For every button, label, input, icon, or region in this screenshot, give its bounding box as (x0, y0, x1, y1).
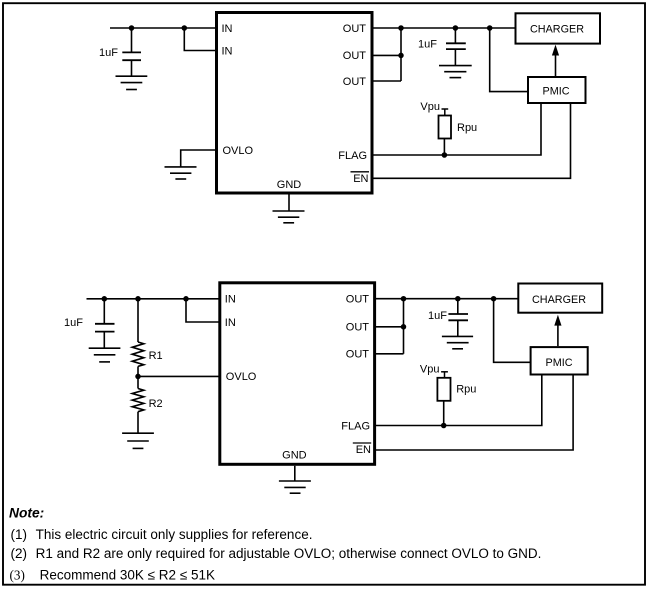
wire: EN to PMIC (bottom) (375, 376, 573, 451)
resistor R2 (zigzag) (132, 376, 144, 433)
svg-text:GND: GND (277, 179, 302, 191)
EN overline (U2) (353, 442, 371, 444)
svg-text:Note:: Note: (9, 506, 44, 521)
resistor Rpu (bottom) (437, 372, 450, 426)
svg-text:(3): (3) (10, 567, 25, 582)
svg-text:GND: GND (282, 450, 307, 462)
svg-text:1uF: 1uF (64, 317, 83, 329)
node: R1 junction (135, 296, 141, 302)
ground (OVLO, top circuit) (165, 167, 197, 179)
svg-text:Vpu: Vpu (420, 101, 440, 113)
svg-text:Rpu: Rpu (457, 122, 477, 134)
ground (under C3) (89, 348, 121, 362)
svg-text:OUT: OUT (346, 322, 370, 334)
capacitor C3 1uF (bottom-left) (95, 299, 115, 348)
box PMIC (bottom) (531, 347, 588, 374)
ground (U2 GND) (279, 481, 311, 493)
node: C1 junction (129, 25, 135, 31)
ground (under C1) (116, 76, 148, 89)
svg-text:1uF: 1uF (428, 310, 447, 322)
wire: branch to IN2 (184, 28, 216, 51)
wire: OUT3 stub (372, 80, 401, 82)
node: IN branch junction (bottom) (183, 296, 189, 302)
node: OUT bus mid junction (bottom) (401, 324, 407, 330)
svg-text:IN: IN (222, 45, 233, 57)
wire: PMIC to CHARGER arrow (555, 53, 557, 76)
node: OVLO divider junction (135, 374, 141, 380)
wire: GND pin to ground (bottom) (294, 466, 296, 481)
node: PMIC branch junction (bottom) (491, 296, 497, 302)
node: IN branch junction (182, 25, 188, 31)
wire: OVLO to ground (181, 150, 217, 167)
resistor R1 (zigzag) (132, 299, 144, 377)
wire: branch to IN2 (bottom) (186, 299, 220, 322)
wire: input to IN1 (bottom) (87, 298, 220, 300)
wire: OUT3 stub (bottom) (375, 353, 404, 355)
box PMIC (top) (528, 77, 586, 103)
wire: GND pin to ground (288, 194, 290, 211)
box CHARGER (top) (516, 13, 601, 43)
svg-text:OUT: OUT (346, 349, 370, 361)
svg-text:IN: IN (225, 294, 236, 306)
svg-text:(2): (2) (11, 546, 28, 561)
svg-text:IN: IN (225, 317, 236, 329)
wire: FLAG to PMIC (372, 104, 541, 155)
svg-text:R2: R2 (149, 398, 163, 410)
node: C2 junction (453, 25, 459, 31)
ground (U1 GND) (273, 211, 305, 223)
node: C3 junction (102, 296, 108, 302)
svg-text:OVLO: OVLO (223, 145, 254, 157)
svg-text:CHARGER: CHARGER (530, 24, 584, 36)
svg-text:Recommend 30K ≤ R2 ≤ 51K: Recommend 30K ≤ R2 ≤ 51K (40, 567, 215, 582)
node: OUT bus top junction (398, 25, 404, 31)
wire: EN to PMIC (372, 104, 571, 178)
ground (under C2) (439, 66, 472, 78)
svg-text:OUT: OUT (343, 23, 367, 35)
svg-text:OVLO: OVLO (226, 371, 257, 383)
svg-text:1uF: 1uF (99, 47, 118, 59)
node: OUT bus mid junction (398, 53, 404, 59)
capacitor C4 1uF (bottom-right) (448, 299, 468, 337)
capacitor C1 1uF (top-left) (122, 28, 141, 76)
wire: OVLO junction to OVLO pin (138, 375, 220, 377)
svg-text:1uF: 1uF (418, 38, 437, 50)
wire: rail branch down to PMIC (490, 28, 528, 92)
svg-text:OUT: OUT (343, 50, 367, 62)
wire: OUT2 stub (372, 54, 401, 56)
node: FLAG/Rpu junction (442, 152, 448, 158)
wire: FLAG to PMIC (bottom) (375, 376, 542, 426)
op-amp U1 (main IC box, top circuit) (217, 13, 373, 194)
svg-text:OUT: OUT (346, 294, 370, 306)
node: C4 junction (455, 296, 461, 302)
node: FLAG/Rpu junction (bottom) (441, 423, 447, 429)
EN overline (U1) (351, 171, 370, 173)
svg-text:Vpu: Vpu (420, 363, 440, 375)
svg-text:(1): (1) (11, 527, 28, 542)
wire: OUT1 rail to CHARGER (372, 27, 516, 29)
wire: input to IN1 (110, 27, 217, 29)
svg-text:R1 and R2 are only required fo: R1 and R2 are only required for adjustab… (36, 546, 542, 561)
svg-text:IN: IN (222, 23, 233, 35)
wire: PMIC to CHARGER arrow (bottom) (557, 324, 559, 346)
arrowhead (to CHARGER, bottom) (554, 315, 561, 326)
op-amp U2 (main IC box, bottom circuit) (220, 283, 375, 465)
wire: OUT bus vertical (bottom) (403, 298, 405, 354)
resistor Rpu (top) (439, 109, 452, 155)
wire: OUT1 rail to CHARGER (bottom) (375, 298, 519, 300)
svg-text:FLAG: FLAG (341, 420, 370, 432)
svg-text:EN: EN (356, 444, 371, 456)
ground (under R2) (122, 433, 154, 448)
wire: OUT bus vertical (400, 27, 402, 81)
wire: OUT2 stub (bottom) (375, 326, 404, 328)
svg-text:Rpu: Rpu (456, 383, 476, 395)
svg-text:OUT: OUT (343, 76, 367, 88)
svg-text:R1: R1 (149, 350, 163, 362)
ground (under C4) (442, 336, 473, 348)
svg-text:PMIC: PMIC (543, 86, 570, 98)
arrowhead (to CHARGER) (552, 45, 559, 56)
svg-text:This electric circuit only sup: This electric circuit only supplies for … (36, 527, 313, 542)
node: PMIC branch junction (487, 25, 493, 31)
node: OUT bus top junction (bottom) (401, 296, 407, 302)
svg-text:FLAG: FLAG (338, 150, 367, 162)
capacitor C2 1uF (top-right) (446, 28, 466, 66)
svg-text:CHARGER: CHARGER (532, 294, 586, 306)
svg-text:EN: EN (353, 173, 368, 185)
box CHARGER (bottom) (518, 284, 602, 313)
wire: rail branch down to PMIC (bottom) (494, 299, 531, 363)
svg-text:PMIC: PMIC (546, 357, 573, 369)
